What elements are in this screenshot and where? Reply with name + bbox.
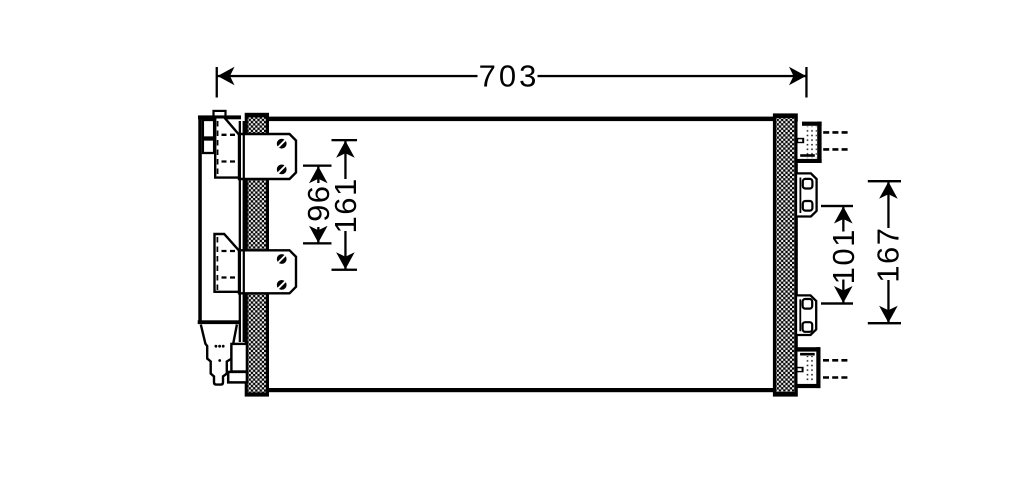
svg-text:703: 703 xyxy=(479,59,540,94)
svg-text:161: 161 xyxy=(328,177,363,233)
svg-text:101: 101 xyxy=(826,228,861,284)
svg-text:167: 167 xyxy=(871,226,906,282)
